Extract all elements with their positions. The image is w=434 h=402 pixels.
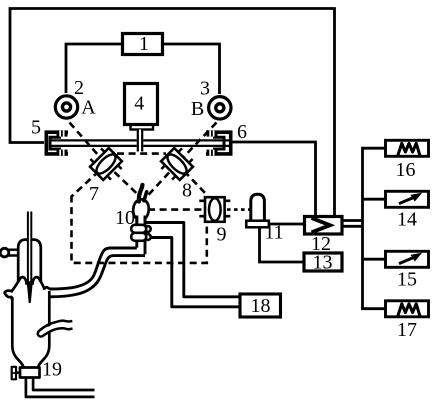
wire box1 right to lamp B — [164, 44, 220, 94]
svg-text:14: 14 — [397, 209, 417, 231]
wire box1 left to lamp A — [66, 44, 121, 93]
lens 7 condenser — [86, 144, 125, 183]
phototube 11 — [246, 194, 268, 227]
zigzag icon box 17 — [398, 304, 421, 317]
dashed lens7 to enclosure corner — [72, 171, 100, 197]
ray lamp A to lens 7 — [70, 123, 107, 165]
svg-text:17: 17 — [397, 319, 417, 341]
nebulizer dome — [18, 240, 41, 282]
svg-text:10: 10 — [115, 207, 135, 229]
capillary tip — [27, 282, 32, 302]
svg-text:7: 7 — [89, 183, 99, 205]
svg-text:1: 1 — [139, 33, 149, 55]
dashed lens8 to lens9 top — [184, 171, 207, 195]
stopcock body — [20, 368, 40, 378]
box 12 amplifier — [305, 217, 343, 235]
wire clamp6 right to box12 top — [233, 142, 316, 216]
flask right wall — [38, 291, 49, 368]
middle side arm walls — [40, 321, 73, 331]
svg-text:19: 19 — [42, 359, 62, 381]
dashed flame to lens 9 — [148, 208, 206, 211]
burner collars — [131, 225, 151, 241]
wire box12 double line to bus — [344, 221, 363, 227]
tube burner to box18 inner wall — [145, 238, 239, 307]
left shoulder and ear — [5, 280, 20, 302]
ray lamp B to lens 8 — [177, 123, 217, 165]
dashed lens7-lens8 horizontal — [117, 152, 166, 155]
svg-text:11: 11 — [264, 222, 283, 244]
svg-text:18: 18 — [251, 295, 271, 317]
arrow icon box 15 — [399, 253, 422, 264]
stopcock valve — [16, 371, 20, 374]
svg-text:A: A — [81, 97, 96, 119]
lens 8 condenser — [157, 144, 196, 183]
crown bump right — [32, 277, 40, 285]
wire bus vertical with stubs to boxes 16,14,15,17 — [363, 148, 385, 309]
box 1 compensator — [123, 34, 163, 55]
amplifier > symbol in box 12 — [312, 218, 331, 232]
lens 9 condenser — [199, 197, 230, 222]
svg-text:9: 9 — [217, 224, 227, 246]
svg-text:4: 4 — [134, 93, 144, 115]
side arm to ring — [8, 250, 18, 256]
wire big loop: clamp5 left, up, top, right down to box12 — [10, 9, 335, 216]
ring opening — [0, 248, 9, 257]
flask left wall — [12, 297, 23, 368]
rail double line — [51, 140, 229, 146]
tube burner to box18 outer wall — [146, 223, 239, 297]
wire detector 11 to box12 — [269, 223, 303, 226]
svg-text:13: 13 — [313, 252, 333, 274]
svg-text:3: 3 — [200, 78, 210, 100]
zigzag icon box 16 — [398, 143, 421, 156]
clamp 6 — [206, 131, 231, 156]
tube flask to burner bottom wall — [50, 256, 145, 297]
flame 10 — [133, 199, 149, 219]
drain tube — [26, 378, 95, 397]
crown bump left — [19, 277, 27, 285]
box 15 meter — [386, 251, 429, 267]
svg-text:B: B — [191, 98, 204, 120]
box 4 galvanometer on slide — [125, 84, 158, 152]
burner tube right wall — [144, 216, 147, 254]
lamp 3 photocell B — [209, 97, 231, 119]
box 17 recorder — [386, 301, 429, 317]
middle side arm white mask — [41, 325, 72, 334]
dashed enclosure left/bottom/right — [72, 196, 207, 263]
box 13 — [304, 253, 342, 271]
box 18 fuel gas supply — [240, 294, 281, 317]
svg-text:16: 16 — [396, 159, 416, 181]
clamp 5 — [46, 131, 68, 156]
wire detector 11 down to box13 — [260, 228, 304, 263]
capillary tube — [28, 212, 31, 284]
tube flask to burner top wall — [50, 248, 137, 289]
svg-text:6: 6 — [237, 121, 247, 143]
box 16 recorder — [386, 140, 429, 156]
right shoulder — [40, 280, 50, 289]
burner tube left wall — [135, 216, 138, 248]
lamp 2 photocell A — [55, 96, 77, 118]
ray lens 8 to flame — [146, 164, 177, 198]
dotted lens 9 to detector 11 — [227, 208, 250, 211]
svg-text:5: 5 — [31, 117, 41, 139]
svg-text:8: 8 — [182, 180, 192, 202]
box 14 meter — [386, 191, 429, 207]
ray lens 7 to flame — [106, 164, 140, 197]
svg-text:15: 15 — [397, 269, 417, 291]
arrow icon box 14 — [399, 193, 422, 204]
